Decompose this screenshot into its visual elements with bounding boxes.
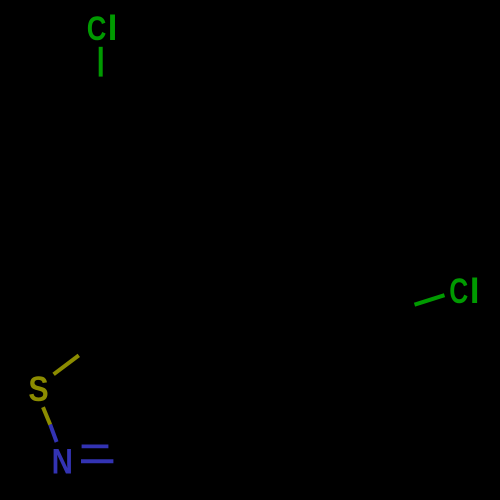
svg-text:N: N (52, 442, 73, 481)
svg-text:S: S (28, 369, 48, 409)
svg-text:l: l (108, 8, 118, 48)
svg-text:C: C (449, 272, 468, 311)
svg-text:l: l (470, 271, 480, 311)
svg-text:C: C (87, 10, 107, 48)
